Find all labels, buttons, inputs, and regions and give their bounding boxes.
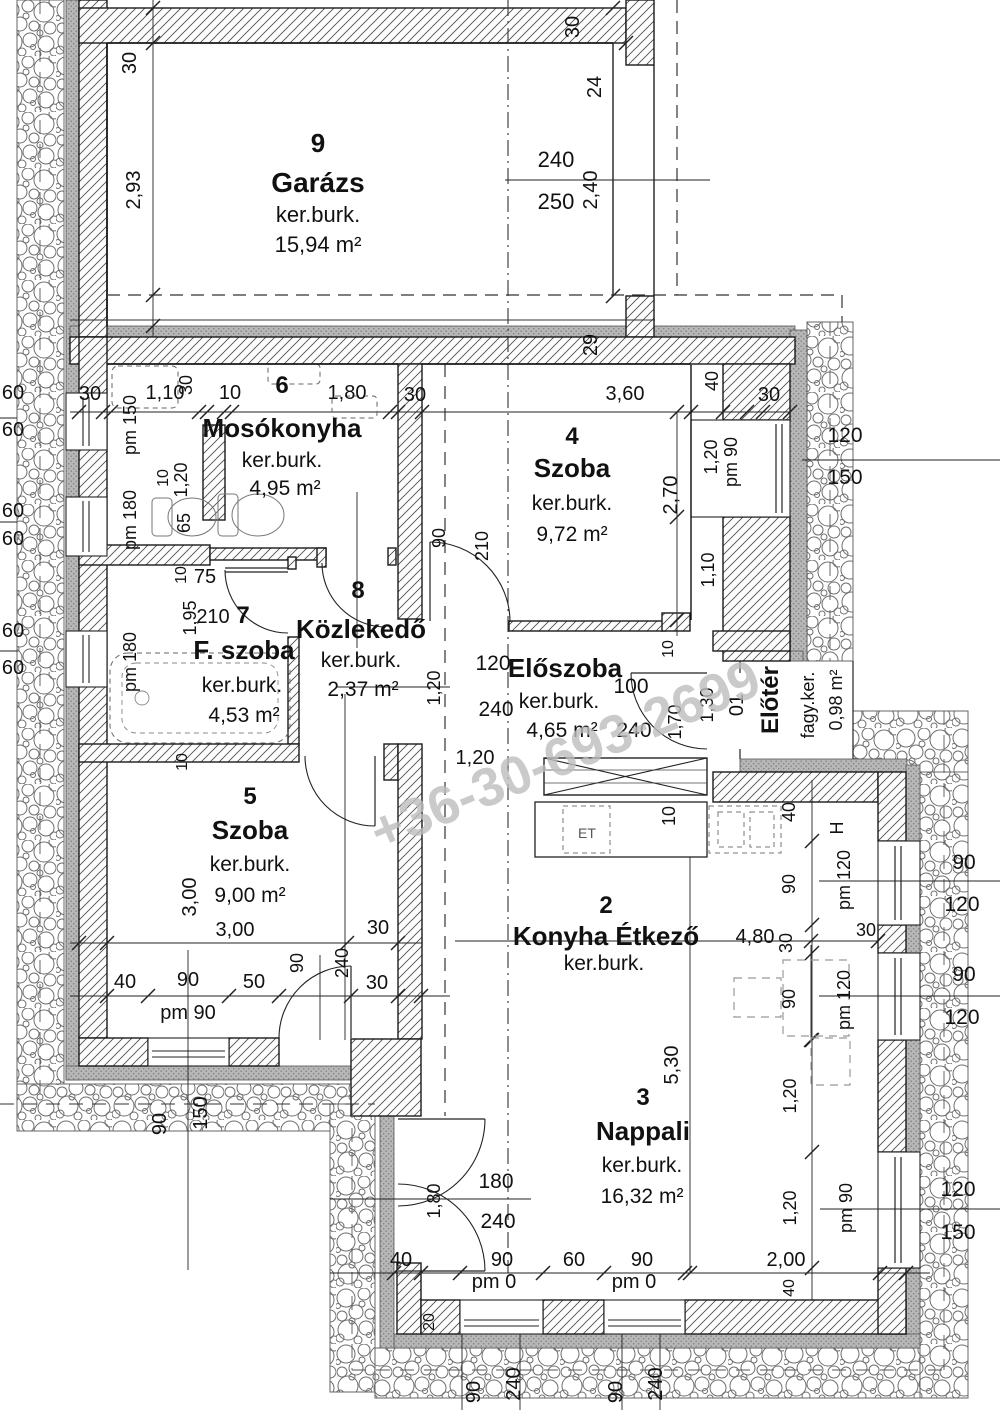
svg-text:90: 90: [952, 963, 975, 986]
wall wall rooms 6-4: [398, 364, 422, 619]
room4 east interior edge: [690, 365, 692, 620]
door room4: [429, 542, 431, 621]
wall house north: [70, 337, 795, 364]
svg-text:ker.burk.: ker.burk.: [202, 674, 283, 697]
window n1: [878, 1152, 920, 1268]
wall nappali west below door: [397, 1263, 421, 1334]
svg-text:30: 30: [367, 917, 389, 939]
bottom axis: [352, 1369, 944, 1371]
svg-text:7: 7: [236, 602, 249, 629]
gray band porch top band: [736, 651, 803, 661]
svg-text:Mosókonyha: Mosókonyha: [203, 413, 362, 443]
svg-text:150: 150: [940, 1221, 975, 1244]
svg-text:210: 210: [196, 606, 229, 628]
roof overhang dashed right: [841, 295, 843, 322]
gray band bottom-left band: [66, 1066, 394, 1080]
svg-text:Közlekedő: Közlekedő: [296, 614, 426, 644]
dim line eloszoba 120: [337, 686, 450, 688]
window room5 south: [148, 1038, 229, 1066]
sink2 room6: [332, 396, 377, 418]
door porch: [631, 672, 707, 674]
dimension line right top: [802, 459, 1000, 461]
wall sw step corner: [351, 1039, 421, 1116]
garage top ticks: [606, 1, 620, 15]
garage right outer line: [653, 65, 655, 296]
dimension line entry door: [330, 1198, 531, 1200]
bottom-left axis dashed: [0, 1103, 375, 1105]
wall room5 east: [398, 744, 422, 1039]
svg-text:16,32 m²: 16,32 m²: [601, 1185, 684, 1208]
window w7: [66, 631, 107, 687]
svg-text:240: 240: [645, 1367, 667, 1400]
wall garage right bottom block: [626, 296, 654, 337]
svg-text:30: 30: [79, 383, 101, 405]
garage left dim line: [152, 0, 154, 337]
svg-text:40: 40: [781, 1279, 798, 1297]
svg-text:90: 90: [287, 953, 307, 973]
room4 east dim line: [676, 412, 678, 636]
left insulation axis: [39, 0, 41, 1104]
svg-text:Konyha Étkező: Konyha Étkező: [513, 921, 699, 951]
upper right axis: [829, 322, 831, 661]
right axis: [943, 711, 945, 1370]
svg-text:1,20: 1,20: [171, 462, 191, 497]
svg-text:pm 120: pm 120: [834, 850, 854, 910]
wall wall 6-7 mid: [210, 548, 326, 560]
gray band step corner block: [365, 1067, 392, 1114]
wall garage right top block: [626, 0, 654, 65]
svg-text:2,93: 2,93: [123, 171, 145, 210]
window nap2: [604, 1300, 685, 1334]
svg-text:90: 90: [779, 989, 799, 1009]
svg-text:120: 120: [827, 424, 862, 447]
gray band kitchen right band: [906, 765, 920, 1348]
window w6b: [66, 497, 107, 556]
svg-text:60: 60: [2, 500, 24, 522]
svg-text:30: 30: [856, 920, 876, 940]
svg-text:3,00: 3,00: [179, 878, 201, 917]
gray band nappali west band: [380, 1114, 394, 1348]
svg-text:180: 180: [478, 1170, 513, 1193]
svg-text:90: 90: [491, 1249, 513, 1271]
svg-text:1,80: 1,80: [328, 382, 367, 404]
left-bottom vertical axis: [351, 1104, 353, 1370]
roof overhang dashed vertical: [676, 0, 678, 295]
svg-text:0,98 m²: 0,98 m²: [826, 669, 846, 730]
svg-text:29: 29: [580, 334, 602, 356]
svg-text:pm 150: pm 150: [120, 395, 140, 455]
svg-text:ker.burk.: ker.burk.: [210, 853, 291, 876]
svg-text:1,20: 1,20: [780, 1078, 800, 1113]
kitchen appliances: [709, 806, 781, 853]
insulation left-bottom vertical strip: [330, 1104, 375, 1392]
svg-text:90: 90: [779, 874, 799, 894]
gray band right upper band: [790, 330, 807, 661]
dimension line top rooms: [70, 411, 790, 413]
svg-text:90: 90: [952, 851, 975, 874]
svg-text:4,95 m²: 4,95 m²: [249, 477, 320, 500]
svg-text:pm 90: pm 90: [836, 1183, 856, 1233]
room5 door dim extension: [319, 955, 321, 1040]
garage interior dim leader: [505, 179, 710, 181]
door room5 bottom: [350, 966, 352, 1038]
wall wall 7-5 right block: [384, 744, 398, 780]
svg-text:pm 120: pm 120: [834, 970, 854, 1030]
wall bottom wall c: [685, 1300, 906, 1334]
insulation left strip: [17, 0, 64, 1131]
garage interior left edge: [106, 43, 108, 326]
room6 top interior edge: [107, 363, 398, 365]
svg-text:60: 60: [563, 1249, 585, 1271]
kitchen 4,80 dim line: [455, 940, 878, 942]
svg-text:Nappali: Nappali: [596, 1116, 690, 1146]
svg-text:3,60: 3,60: [606, 383, 645, 405]
wall east wall c: [878, 1040, 906, 1152]
svg-text:30: 30: [366, 972, 388, 994]
svg-text:150: 150: [827, 466, 862, 489]
svg-text:Szoba: Szoba: [212, 815, 289, 845]
long dash line mid: [444, 364, 446, 1116]
kitchen 90 dim extension: [810, 945, 812, 1040]
svg-text:H: H: [827, 822, 847, 835]
insulation right corner: [853, 711, 968, 772]
svg-text:75: 75: [194, 566, 216, 588]
svg-text:60: 60: [2, 657, 24, 679]
wall east wall b: [878, 925, 906, 953]
left margin ticks: [0, 417, 17, 419]
svg-text:Előszoba: Előszoba: [508, 653, 623, 683]
dimension line room5 bottom: [70, 995, 450, 997]
roof overhang dashed horizontal: [107, 294, 842, 296]
svg-text:30: 30: [119, 52, 141, 74]
svg-text:10: 10: [219, 382, 241, 404]
wall porch west piece: [713, 631, 790, 651]
door F.szoba: [225, 567, 288, 569]
wall door frame c: [388, 548, 396, 565]
svg-text:240: 240: [332, 948, 352, 978]
svg-text:40: 40: [779, 802, 799, 822]
svg-text:10: 10: [174, 753, 191, 771]
wall bottom-left wall b: [229, 1038, 279, 1066]
window room4 east: [691, 420, 790, 517]
svg-text:90: 90: [149, 1113, 171, 1135]
wc pair room6: [152, 494, 284, 536]
dimension line nappali bottom: [330, 1272, 930, 1274]
wall bottom wall b: [543, 1300, 604, 1334]
window k2: [878, 953, 920, 1040]
entry double door: [398, 1118, 485, 1120]
wall garage top: [79, 8, 626, 43]
wall house west: [79, 337, 107, 1038]
gardrob crossed box: [544, 758, 707, 795]
svg-text:5: 5: [243, 783, 256, 810]
svg-text:150: 150: [190, 1096, 212, 1129]
wall room4 east upper: [723, 364, 790, 420]
svg-text:15,94 m²: 15,94 m²: [275, 232, 362, 257]
insulation upper right strip: [807, 322, 853, 661]
bathtub room7: [110, 653, 290, 743]
gray band kitchen top band: [740, 759, 907, 772]
svg-text:9,00 m²: 9,00 m²: [214, 884, 285, 907]
wall bottom wall a: [421, 1300, 460, 1334]
svg-text:pm 180: pm 180: [120, 632, 140, 692]
window k1: [878, 841, 920, 925]
svg-text:9: 9: [311, 128, 325, 158]
kitchen island boxes: [734, 978, 781, 1017]
dimension lines right kitchen: [819, 880, 1000, 882]
svg-text:10: 10: [660, 640, 677, 658]
svg-text:60: 60: [2, 528, 24, 550]
line above north band: [70, 319, 655, 321]
door room5 top: [374, 756, 376, 826]
window w6a: [66, 393, 107, 450]
svg-text:3,00: 3,00: [216, 919, 255, 941]
svg-text:pm 180: pm 180: [120, 490, 140, 550]
svg-text:20: 20: [421, 1313, 438, 1331]
svg-text:50: 50: [243, 971, 265, 993]
garage interior top edge: [107, 42, 613, 44]
wall room4 east lower: [723, 517, 790, 661]
svg-text:24: 24: [584, 76, 606, 98]
svg-text:30: 30: [776, 933, 796, 953]
section dash-dot line: [507, 0, 509, 1273]
window nap1: [460, 1300, 543, 1334]
svg-text:pm 0: pm 0: [612, 1271, 656, 1293]
dimension line room5: [70, 942, 422, 944]
kitchen height dim line: [689, 849, 691, 1273]
svg-text:40: 40: [702, 371, 722, 391]
kitchen counter: [535, 802, 707, 857]
kitchen window dim line: [811, 780, 813, 1300]
svg-text:60: 60: [2, 382, 24, 404]
washer room6: [112, 366, 178, 408]
wall door frame a: [288, 557, 296, 569]
svg-text:90: 90: [631, 1249, 653, 1271]
svg-text:2,40: 2,40: [580, 171, 602, 210]
svg-text:Garázs: Garázs: [271, 167, 364, 198]
svg-text:90: 90: [605, 1381, 627, 1403]
wall garage left: [79, 0, 107, 337]
wall bottom-left wall a: [79, 1038, 148, 1066]
gray band left plaster: [66, 0, 79, 1080]
svg-text:10: 10: [659, 806, 679, 826]
svg-text:8: 8: [351, 577, 364, 604]
svg-text:240: 240: [478, 698, 513, 721]
svg-text:pm 90: pm 90: [160, 1002, 216, 1024]
wall east wall d: [878, 1268, 906, 1334]
svg-text:30: 30: [176, 375, 196, 395]
wall east wall a: [878, 772, 906, 841]
svg-text:240: 240: [538, 147, 575, 172]
svg-text:pm 0: pm 0: [472, 1271, 516, 1293]
svg-text:2,00: 2,00: [767, 1249, 806, 1271]
svg-text:Szoba: Szoba: [534, 453, 611, 483]
svg-text:90: 90: [177, 969, 199, 991]
svg-text:10: 10: [155, 469, 172, 487]
svg-text:5,30: 5,30: [661, 1046, 683, 1085]
sink room6: [268, 364, 320, 384]
svg-text:2,70: 2,70: [660, 476, 682, 515]
dim extension 75 door: [356, 492, 358, 648]
svg-text:2,37 m²: 2,37 m²: [327, 678, 398, 701]
svg-text:120: 120: [944, 1006, 979, 1029]
wall room4 south: [509, 621, 665, 631]
svg-text:120: 120: [940, 1178, 975, 1201]
svg-text:30: 30: [404, 384, 426, 406]
wall door frame b: [317, 548, 326, 567]
svg-text:ker.burk.: ker.burk.: [321, 649, 402, 672]
wall wall 7-5 left: [79, 744, 299, 762]
svg-text:1,10: 1,10: [698, 552, 718, 587]
insulation bottom-left strip: [17, 1084, 375, 1131]
svg-text:1,80: 1,80: [424, 1183, 444, 1218]
porch outline: [739, 661, 741, 673]
svg-text:60: 60: [2, 620, 24, 642]
svg-text:240: 240: [480, 1210, 515, 1233]
wall mosokonyha niche: [203, 425, 225, 520]
gray band bottom band: [394, 1334, 920, 1348]
svg-text:ker.burk.: ker.burk.: [519, 690, 600, 713]
svg-text:pm 90: pm 90: [721, 437, 741, 487]
svg-text:90: 90: [429, 528, 449, 548]
svg-text:120: 120: [475, 652, 510, 675]
svg-text:2: 2: [599, 892, 612, 919]
wall wall 7-8: [288, 637, 299, 744]
wall wall 6-7 left: [79, 545, 210, 565]
svg-text:ker.burk.: ker.burk.: [276, 202, 360, 227]
insulation right strip: [920, 772, 968, 1398]
svg-text:30: 30: [562, 16, 584, 38]
svg-text:fagy.ker.: fagy.ker.: [798, 672, 818, 739]
door mosokonyha: [322, 563, 386, 627]
svg-text:240: 240: [503, 1367, 525, 1400]
svg-text:4: 4: [565, 423, 579, 450]
svg-text:ET: ET: [578, 825, 596, 841]
svg-text:6: 6: [275, 372, 288, 399]
wall room4 south east piece: [662, 613, 690, 631]
svg-text:4,80: 4,80: [736, 926, 775, 948]
svg-text:1,20: 1,20: [780, 1190, 800, 1225]
svg-text:4,53 m²: 4,53 m²: [208, 704, 279, 727]
svg-text:1,20: 1,20: [424, 670, 444, 705]
svg-text:ker.burk.: ker.burk.: [532, 492, 613, 515]
svg-text:ker.burk.: ker.burk.: [564, 952, 645, 975]
insulation bottom strip: [375, 1348, 920, 1398]
svg-text:120: 120: [944, 893, 979, 916]
svg-text:60: 60: [2, 419, 24, 441]
svg-text:65: 65: [174, 513, 194, 533]
svg-text:1,20: 1,20: [701, 439, 721, 474]
svg-text:9,72 m²: 9,72 m²: [536, 523, 607, 546]
svg-text:30: 30: [758, 384, 780, 406]
svg-text:F. szoba: F. szoba: [193, 635, 295, 665]
dim extension room5 door: [344, 694, 346, 1040]
svg-text:40: 40: [114, 971, 136, 993]
svg-text:10: 10: [173, 566, 190, 584]
svg-text:250: 250: [538, 189, 575, 214]
wall kitchen top wall: [713, 772, 878, 802]
room4 top interior edge: [422, 363, 691, 365]
svg-text:3: 3: [636, 1084, 649, 1111]
svg-text:ker.burk.: ker.burk.: [242, 449, 323, 472]
svg-text:210: 210: [472, 531, 492, 561]
gray band north wall band: [70, 326, 795, 337]
garage right inner line: [612, 43, 614, 296]
window dim extension lines bottom: [461, 1334, 463, 1410]
room5 window dim extension: [187, 950, 189, 1270]
svg-text:ker.burk.: ker.burk.: [602, 1154, 683, 1177]
svg-text:40: 40: [390, 1249, 412, 1271]
svg-text:90: 90: [463, 1381, 485, 1403]
